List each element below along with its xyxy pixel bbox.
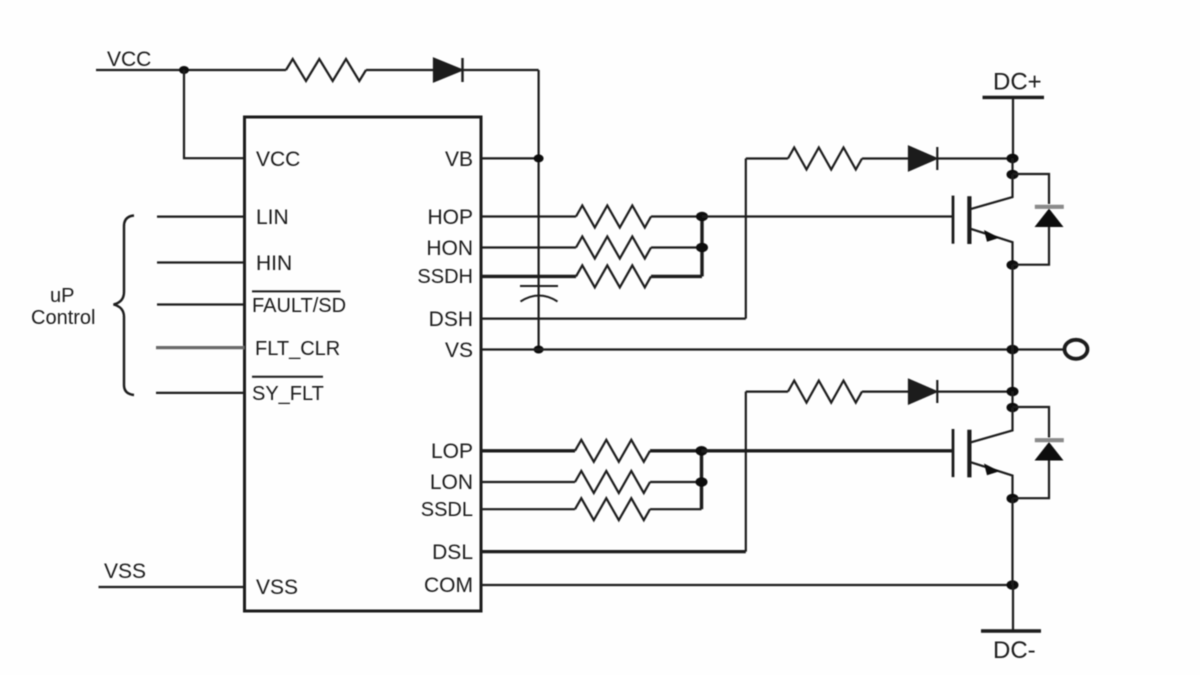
- diode D1 (VCC series): [434, 58, 463, 82]
- wire HIN stub: [157, 261, 245, 263]
- wire R7 to gate node: [650, 481, 702, 483]
- wire R1 to D1: [366, 69, 434, 71]
- wire VS to Q2: [1011, 350, 1013, 392]
- wire D3 to rail: [937, 391, 1012, 393]
- wire VB vertical (bootstrap): [537, 70, 539, 350]
- node VS on bootstrap line: [534, 346, 544, 354]
- capacitor C1 top plate: [520, 285, 558, 287]
- svg-text:VCC: VCC: [107, 48, 151, 71]
- node Q1 emitter: [1007, 260, 1019, 270]
- resistor R9 (low-side drain): [788, 381, 862, 403]
- svg-text:VS: VS: [445, 339, 473, 362]
- wire LON pin: [481, 481, 575, 483]
- DC+ rail bar: [983, 96, 1045, 99]
- resistor R8 (SSDL): [575, 498, 650, 520]
- node HOP junction: [696, 212, 708, 222]
- wire to R5: [746, 157, 788, 159]
- wire rail to collector node: [1011, 158, 1013, 174]
- node VCC junction: [179, 66, 189, 74]
- svg-text:VSS: VSS: [256, 576, 298, 599]
- node VB: [534, 154, 544, 162]
- wire FAULT/SD stub: [157, 303, 245, 305]
- svg-text:VB: VB: [445, 148, 473, 171]
- wire R9 to D3: [862, 391, 909, 393]
- wire D1 to VB line: [463, 69, 539, 71]
- wire R8 to gate node: [650, 508, 702, 510]
- wire COM to DC-: [1012, 585, 1014, 631]
- diode D5 (Q2 freewheel): [1013, 407, 1064, 498]
- wire DSH pin: [481, 318, 746, 320]
- wire to Q2 collector node: [1011, 392, 1013, 408]
- svg-text:LIN: LIN: [256, 206, 289, 229]
- svg-text:DSH: DSH: [429, 308, 473, 331]
- wire VCC down to pin: [184, 70, 245, 158]
- svg-text:HON: HON: [426, 237, 473, 260]
- svg-text:Control: Control: [31, 307, 95, 329]
- wire gate node vertical (low side): [700, 451, 703, 509]
- resistor R6 (LOP): [575, 440, 650, 462]
- wire D2 to DC+ rail: [937, 157, 1012, 159]
- svg-text:DC-: DC-: [993, 637, 1036, 664]
- node Q1 collector: [1007, 170, 1019, 180]
- output terminal circle: [1065, 340, 1088, 359]
- node Q2 emitter: [1007, 494, 1019, 504]
- wire R3 to gate node: [651, 246, 702, 248]
- transistor Q2 (low-side IGBT): [953, 408, 1013, 499]
- wire R5 to D2: [862, 157, 909, 159]
- resistor R1 (VCC series): [286, 59, 366, 81]
- node VS at half bridge: [1007, 345, 1019, 355]
- svg-text:SY_FLT: SY_FLT: [252, 383, 324, 405]
- resistor R3 (HON): [576, 237, 651, 259]
- wire DSH vertical up: [745, 159, 747, 319]
- wire HON pin: [481, 246, 576, 248]
- svg-text:HOP: HOP: [427, 206, 473, 229]
- node LOP junction: [696, 446, 708, 456]
- resistor R4 (SSDH): [576, 265, 651, 287]
- FAULT/SD overline: [252, 290, 341, 292]
- diode D2 (high side): [909, 147, 937, 170]
- wire R6 to gate node: [650, 449, 702, 452]
- IC U1 body: [245, 117, 482, 611]
- svg-text:FAULT/SD: FAULT/SD: [252, 295, 346, 317]
- wire Q1 emitter to VS: [1011, 265, 1013, 350]
- wire VSS: [99, 586, 245, 588]
- capacitor C1 curved plate: [521, 296, 558, 302]
- wire DSL pin: [481, 550, 746, 553]
- node Q2 collector: [1007, 403, 1019, 413]
- wire R4 to gate node: [651, 275, 702, 278]
- wire VB pin: [481, 157, 539, 159]
- wire to R9: [746, 391, 788, 393]
- wire VCC top rail: [96, 69, 286, 71]
- node Q1 collector rail: [1007, 154, 1019, 164]
- diode D3 (low side): [909, 380, 937, 403]
- transistor Q1 (high-side IGBT): [953, 175, 1013, 266]
- svg-text:DC+: DC+: [993, 69, 1042, 96]
- svg-text:SSDH: SSDH: [417, 266, 473, 288]
- node COM: [1007, 580, 1019, 590]
- wire SY_FLT stub: [156, 392, 245, 394]
- svg-text:LON: LON: [430, 471, 473, 494]
- diode D4 (Q1 freewheel): [1013, 174, 1064, 265]
- svg-text:VCC: VCC: [256, 148, 300, 171]
- wire SSDL pin: [481, 508, 575, 510]
- resistor R5 (high-side drain): [788, 148, 862, 170]
- wire to Q2 gate: [702, 449, 953, 452]
- node HON junction: [696, 243, 708, 253]
- uP control brace: [114, 216, 135, 396]
- wire DC+ rail down: [1012, 97, 1014, 158]
- SY_FLT overline: [252, 376, 323, 378]
- svg-text:SSDL: SSDL: [421, 499, 473, 521]
- wire Q2 emitter to COM: [1011, 499, 1013, 586]
- svg-text:DSL: DSL: [432, 541, 473, 564]
- svg-text:COM: COM: [424, 574, 473, 597]
- svg-text:HIN: HIN: [256, 252, 292, 275]
- svg-text:VSS: VSS: [104, 560, 146, 583]
- wire DSL vertical up: [745, 392, 747, 552]
- node Q2 drain row: [1007, 387, 1019, 397]
- node LON junction: [696, 477, 708, 487]
- wire FLT_CLR stub: [156, 346, 245, 349]
- svg-text:LOP: LOP: [431, 440, 473, 463]
- wire R2 to gate node: [651, 215, 702, 217]
- wire gate node vertical (high side): [700, 217, 703, 277]
- resistor R7 (LON): [575, 471, 650, 493]
- resistor R2 (HOP): [576, 206, 651, 228]
- svg-text:FLT_CLR: FLT_CLR: [255, 338, 340, 360]
- wire COM pin: [481, 584, 1013, 586]
- svg-text:uP: uP: [50, 285, 74, 307]
- wire VS pin to output: [481, 348, 1066, 350]
- wire SSDH pin: [481, 275, 576, 278]
- DC- rail bar: [981, 629, 1041, 632]
- wire to Q1 gate: [702, 215, 953, 217]
- wire HOP pin: [481, 215, 576, 217]
- wire LOP pin: [481, 449, 575, 452]
- wire LIN stub: [157, 216, 245, 218]
